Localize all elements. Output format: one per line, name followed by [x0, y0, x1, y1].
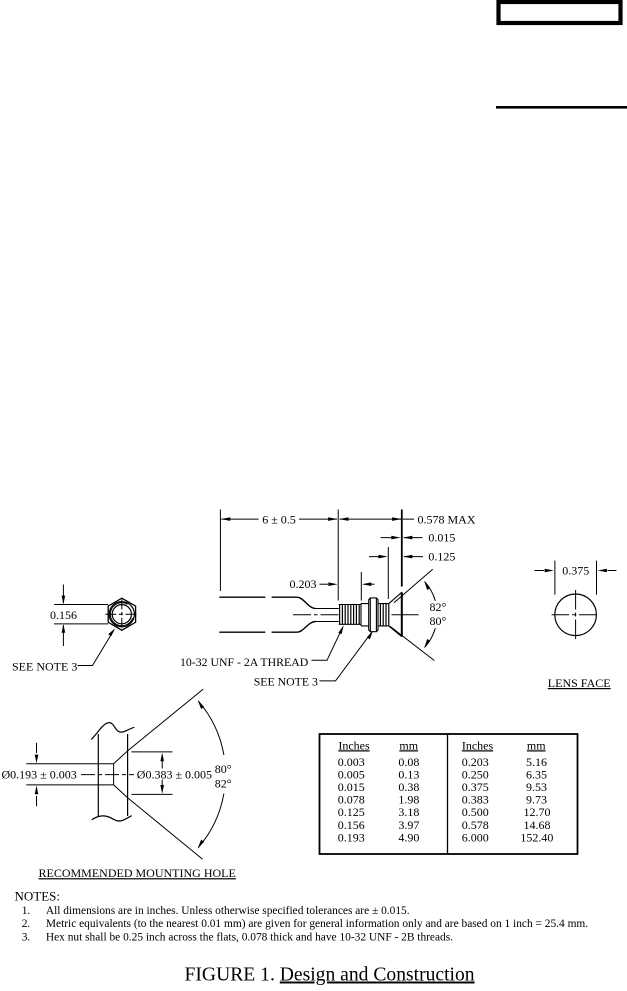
svg-text:4.90: 4.90	[398, 830, 419, 844]
leader to nut	[78, 631, 114, 666]
dim 6 +/- 0.5 line left	[221, 518, 258, 520]
countersink face top extended	[114, 689, 204, 764]
svg-text:80°: 80°	[215, 762, 232, 776]
extension line cable end	[219, 510, 221, 592]
cable taper top	[297, 597, 315, 608]
extension line thread start	[337, 510, 339, 601]
dim 0.203 right arrow	[364, 583, 375, 585]
thread major-diameter arc	[110, 603, 132, 626]
svg-text:0.125: 0.125	[428, 550, 455, 564]
svg-text:0.375: 0.375	[562, 564, 589, 578]
svg-text:10-32 UNF - 2A THREAD: 10-32 UNF - 2A THREAD	[180, 655, 309, 669]
note leader	[320, 633, 372, 681]
rear ribbed section rails	[378, 604, 389, 626]
svg-text:RECOMMENDED MOUNTING HOLE: RECOMMENDED MOUNTING HOLE	[39, 866, 236, 880]
cable jacket bottom line	[219, 631, 297, 633]
mounting angle arc top	[198, 701, 224, 755]
svg-text:mm: mm	[399, 738, 418, 752]
dim 0.203 left arrow	[320, 583, 329, 585]
mounting arc arrowhead top	[198, 700, 204, 709]
hole top line	[26, 763, 113, 765]
lens face edge	[401, 592, 403, 636]
0.156 bottom extension line	[54, 623, 108, 625]
neck top line	[316, 608, 339, 610]
svg-text:1.: 1.	[22, 905, 31, 917]
lens circle	[555, 594, 597, 636]
nut vertical centerline	[121, 599, 123, 630]
svg-text:2.: 2.	[22, 918, 31, 930]
body section	[361, 604, 369, 626]
mounting angle arc bottom	[198, 794, 224, 848]
cable taper bottom	[297, 622, 315, 633]
hole bottom line	[26, 784, 113, 786]
lens vertical centerline	[575, 590, 577, 639]
dim 0.125 arrows	[369, 556, 423, 558]
0.375 left arrow	[535, 570, 545, 572]
dim 0.578 MAX line	[340, 518, 414, 520]
nut horizontal centerline	[105, 613, 138, 615]
nut chamfer circle	[109, 602, 134, 627]
cable jacket top line	[219, 596, 297, 598]
svg-text:0.193: 0.193	[338, 830, 365, 844]
extension line thread end	[360, 572, 362, 601]
extension line cone apex	[387, 547, 389, 599]
arc arrowhead top	[424, 581, 430, 590]
thread section rails	[339, 605, 361, 625]
countersink face bottom extended	[114, 785, 203, 859]
svg-text:0.203: 0.203	[290, 577, 317, 591]
svg-text:Inches: Inches	[462, 738, 494, 752]
svg-text:Metric equivalents (to the nea: Metric equivalents (to the nearest 0.01 …	[46, 918, 588, 930]
svg-text:Ø0.383 ± 0.005: Ø0.383 ± 0.005	[137, 768, 212, 782]
svg-text:0.156: 0.156	[50, 608, 77, 622]
lens horizontal centerline	[552, 614, 599, 616]
svg-text:Ø0.193 ± 0.003: Ø0.193 ± 0.003	[2, 768, 77, 782]
hex nut body	[108, 598, 135, 630]
svg-text:6.000: 6.000	[462, 830, 489, 844]
0.375 extension line right	[596, 561, 598, 595]
angle arc bottom	[425, 628, 436, 647]
svg-text:0.578 MAX: 0.578 MAX	[418, 512, 476, 526]
cone bottom edge	[389, 626, 402, 637]
hex nut facet lines	[370, 598, 376, 632]
svg-text:LENS FACE: LENS FACE	[548, 676, 611, 690]
svg-text:FIGURE 1. Design and Construct: FIGURE 1. Design and Construction	[185, 965, 475, 986]
0.156 top extension line	[54, 604, 108, 606]
dim 6 +/- 0.5 line right	[299, 518, 337, 520]
svg-text:152.40: 152.40	[520, 830, 553, 844]
table border	[320, 734, 578, 854]
neck bottom line	[316, 621, 339, 623]
dia 0.383 upper arrow	[161, 761, 163, 769]
thread leader	[312, 628, 343, 661]
header black-bordered box	[499, 2, 621, 23]
svg-text:82°: 82°	[430, 600, 447, 614]
plate left face	[97, 734, 99, 816]
svg-text:NOTES:: NOTES:	[15, 889, 61, 904]
svg-text:82°: 82°	[215, 776, 232, 790]
svg-text:SEE NOTE 3: SEE NOTE 3	[254, 674, 318, 688]
0.156 lower dimension arrow	[62, 625, 64, 646]
cone angle line top	[394, 569, 433, 603]
svg-text:Inches: Inches	[338, 738, 370, 752]
thread crest lines	[340, 605, 360, 625]
svg-text:80°: 80°	[430, 614, 447, 628]
angle arc top	[425, 582, 436, 601]
svg-text:Hex nut shall be 0.25 inch acr: Hex nut shall be 0.25 inch across the fl…	[46, 931, 453, 943]
mounting arc arrowhead bottom	[198, 840, 204, 849]
hole centerline	[81, 774, 134, 776]
svg-text:mm: mm	[527, 738, 546, 752]
hex nut side view	[369, 598, 378, 632]
cone angle line bottom	[390, 626, 434, 660]
0.156 upper dimension arrow	[62, 585, 64, 604]
dia 0.383 extension top	[131, 751, 172, 753]
plate top break squiggle	[91, 723, 134, 740]
dia 0.193 lower arrow	[36, 796, 38, 806]
plate bottom break squiggle	[92, 816, 132, 821]
dia 0.193 upper arrow	[36, 743, 38, 753]
0.375 right arrow	[608, 570, 617, 572]
assembly centerline	[293, 614, 339, 616]
dia 0.383 extension bottom	[131, 793, 172, 795]
svg-text:0.015: 0.015	[428, 531, 455, 545]
dim 0.015 arrows	[381, 537, 423, 539]
extension line lens face	[401, 510, 403, 587]
plate right face	[127, 734, 129, 816]
thread minor-diameter circle	[112, 605, 131, 624]
svg-text:SEE NOTE 3: SEE NOTE 3	[12, 660, 77, 674]
countersink root	[113, 764, 115, 785]
0.375 extension line left	[554, 561, 556, 595]
header horizontal rule	[496, 106, 627, 109]
cone top edge	[389, 592, 402, 603]
rear section rib lines	[380, 604, 388, 626]
arc arrowhead bottom	[424, 639, 430, 648]
table divider	[447, 734, 449, 854]
centerline through cone	[392, 614, 419, 616]
svg-text:3.: 3.	[22, 931, 31, 943]
dia 0.383 lower arrow	[161, 780, 163, 786]
svg-text:All dimensions are in inches.: All dimensions are in inches. Unless oth…	[46, 905, 410, 917]
svg-text:6 ± 0.5: 6 ± 0.5	[262, 512, 296, 526]
